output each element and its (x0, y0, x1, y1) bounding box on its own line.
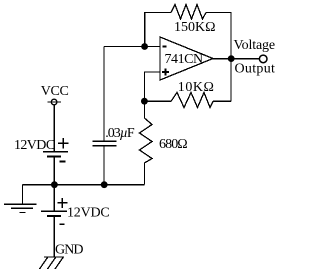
terminal Voltage Output circle (259, 55, 267, 63)
node output junction dot (228, 55, 235, 62)
node B junction dot (141, 98, 148, 105)
wire 10K right lead (213, 100, 231, 102)
battery B1 plates (43, 151, 68, 153)
wire bus to battery B2 (53, 185, 55, 211)
wire ground bus (22, 184, 144, 186)
wire feedback top-right (206, 13, 231, 102)
wire VCC down to battery B1 (53, 105, 55, 151)
svg-text:10KΩ: 10KΩ (178, 80, 215, 95)
wire bus left end down (21, 185, 23, 204)
resistor R1 150K zigzag (171, 5, 206, 20)
wire feedback top-left vertical (145, 13, 171, 47)
wire battery B1 to bus (53, 158, 55, 185)
svg-text:VCC: VCC (41, 84, 69, 99)
wire node B to 680 top (143, 101, 145, 118)
battery B2 minus sign (60, 223, 65, 225)
svg-text:Voltage: Voltage (234, 38, 275, 53)
op-amp plus sign (162, 71, 169, 73)
svg-text:GND: GND (55, 243, 83, 258)
svg-text:741CN: 741CN (165, 52, 204, 67)
wire capacitor branch down (103, 47, 105, 141)
wire op-amp output stub (213, 58, 231, 60)
battery B1 minus sign (60, 161, 66, 163)
resistor R3 680 zigzag (140, 118, 153, 163)
terminal VCC circle (51, 99, 57, 105)
resistor R2 10K zigzag (171, 93, 213, 108)
svg-text:12VDC: 12VDC (14, 138, 55, 153)
battery B2 plus sign (57, 202, 67, 204)
battery B2 plates (41, 210, 67, 212)
wire plus input (144, 72, 160, 101)
wire node A left to capacitor branch (104, 46, 145, 48)
wire capacitor to ground bus (103, 147, 105, 185)
wire battery B2 to chassis ground (53, 217, 55, 257)
ground chassis GND symbol (44, 256, 64, 258)
ground earth symbol (4, 203, 37, 205)
svg-text:680Ω: 680Ω (159, 137, 187, 152)
op-amp minus sign (162, 46, 166, 48)
node bus-capacitor junction dot (101, 181, 108, 188)
battery B1 plus sign (58, 142, 68, 144)
svg-text:.03µF: .03µF (105, 126, 135, 141)
wire 10K left lead (144, 100, 171, 102)
op-amp U1 741CN triangle (160, 37, 213, 80)
capacitor C1 plates (93, 140, 117, 142)
node A junction dot (141, 43, 148, 50)
node bus-battery junction dot (51, 181, 58, 188)
wire 680 bottom to bus (143, 163, 145, 185)
svg-text:150KΩ: 150KΩ (174, 20, 216, 35)
wire output to terminal (231, 58, 259, 60)
svg-text:Output: Output (235, 61, 276, 76)
wire node A to minus input (145, 46, 160, 48)
svg-text:12VDC: 12VDC (67, 206, 110, 221)
